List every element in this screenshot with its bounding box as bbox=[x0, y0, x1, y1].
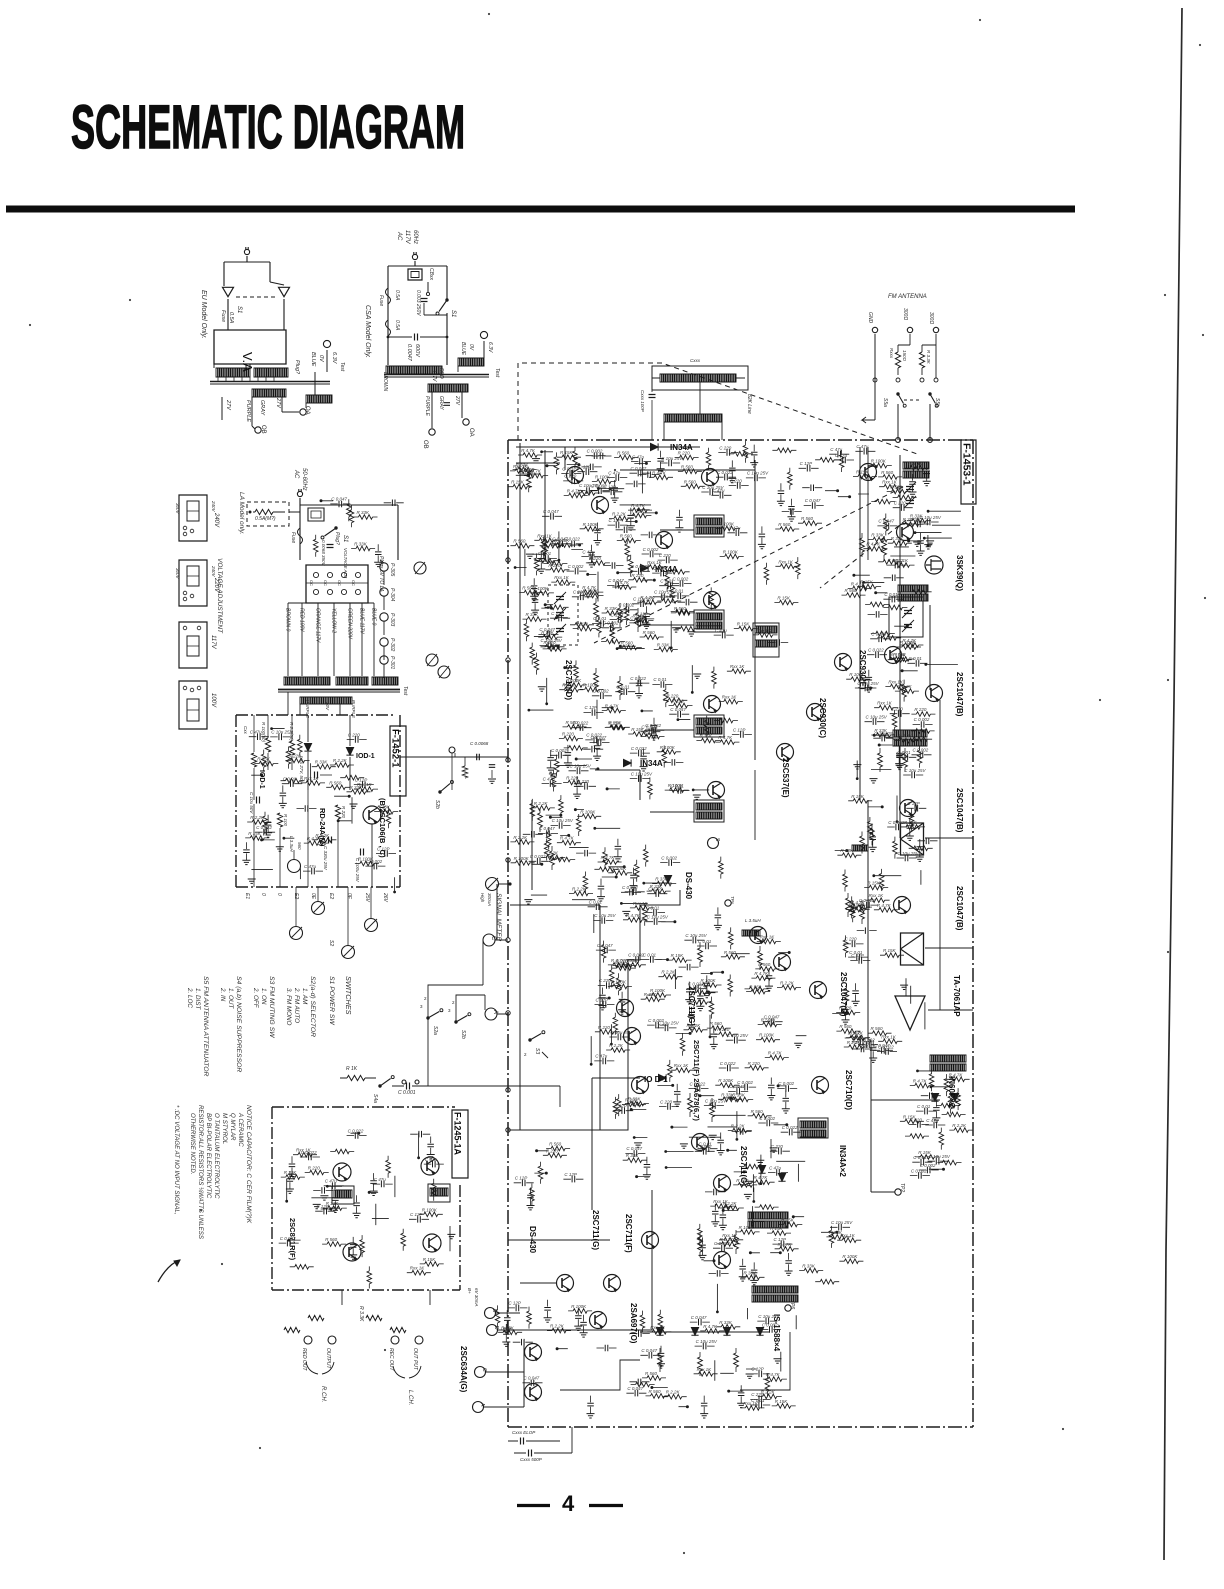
svg-text:R 15K: R 15K bbox=[851, 794, 865, 799]
svg-text:BROWN: BROWN bbox=[382, 372, 388, 392]
svg-text:R 15K: R 15K bbox=[248, 831, 262, 836]
svg-text:C 47u: C 47u bbox=[632, 454, 645, 459]
svg-text:R 560: R 560 bbox=[871, 1026, 884, 1031]
svg-text:High: High bbox=[480, 893, 485, 903]
svg-text:R 15K: R 15K bbox=[511, 480, 525, 485]
svg-text:R 33K: R 33K bbox=[650, 884, 664, 889]
svg-text:C 10u 25V: C 10u 25V bbox=[758, 1314, 780, 1319]
svg-text:C 0.047: C 0.047 bbox=[805, 498, 821, 503]
svg-text:C 0.022: C 0.022 bbox=[301, 1150, 317, 1155]
svg-text:Plugs 6V TO LA: Plugs 6V TO LA bbox=[378, 556, 384, 592]
svg-text:C 0.022: C 0.022 bbox=[690, 1081, 706, 1086]
svg-text:R 560: R 560 bbox=[684, 479, 697, 484]
svg-text:0: 0 bbox=[276, 893, 282, 896]
svg-text:C 0.01: C 0.01 bbox=[909, 656, 923, 661]
svg-text:R 33K: R 33K bbox=[732, 1092, 746, 1097]
svg-text:R 220: R 220 bbox=[748, 1061, 761, 1066]
svg-text:C 0.022: C 0.022 bbox=[586, 733, 602, 738]
svg-text:C 10u 25V: C 10u 25V bbox=[661, 456, 683, 461]
svg-text:R 4.7K: R 4.7K bbox=[631, 503, 646, 508]
svg-text:R 100: R 100 bbox=[283, 814, 288, 827]
svg-text:R 15K: R 15K bbox=[867, 881, 881, 886]
svg-text:C 47u: C 47u bbox=[304, 864, 317, 869]
svg-text:S2(a-d) SELECTOR: S2(a-d) SELECTOR bbox=[309, 976, 316, 1037]
svg-text:R 33K: R 33K bbox=[626, 1153, 640, 1158]
svg-text:S2b: S2b bbox=[434, 800, 440, 809]
svg-text:R 33K: R 33K bbox=[657, 642, 671, 647]
svg-text:GRAY: GRAY bbox=[438, 396, 444, 410]
svg-text:C 10u 25V: C 10u 25V bbox=[685, 933, 707, 938]
svg-text:0V: 0V bbox=[318, 355, 324, 363]
svg-text:TPx: TPx bbox=[730, 896, 735, 905]
svg-text:0.5A: 0.5A bbox=[394, 290, 400, 301]
svg-text:R 100K: R 100K bbox=[842, 1254, 858, 1259]
svg-text:Cxxx: Cxxx bbox=[690, 358, 701, 363]
svg-text:VOLTAGE ADJ: VOLTAGE ADJ bbox=[343, 548, 348, 579]
svg-text:DS-430: DS-430 bbox=[684, 872, 693, 900]
svg-text:C 220: C 220 bbox=[751, 1392, 764, 1397]
svg-text:S2: S2 bbox=[328, 940, 334, 946]
svg-text:R 100K: R 100K bbox=[554, 538, 570, 543]
svg-text:R 33K: R 33K bbox=[721, 1092, 735, 1097]
svg-text:R 560: R 560 bbox=[562, 683, 575, 688]
svg-text:R 100K: R 100K bbox=[660, 745, 676, 750]
svg-text:C 0.01: C 0.01 bbox=[643, 952, 657, 957]
svg-text:C 0.047: C 0.047 bbox=[878, 519, 894, 524]
svg-text:VOLTAGE ADJUSTMENT: VOLTAGE ADJUSTMENT bbox=[216, 558, 223, 634]
svg-text:C 0.01: C 0.01 bbox=[538, 551, 552, 556]
svg-text:C 0.002: C 0.002 bbox=[759, 1116, 775, 1121]
svg-text:AC: AC bbox=[396, 231, 402, 241]
svg-text:R 2.2K: R 2.2K bbox=[644, 730, 659, 735]
svg-text:C 10u 25V: C 10u 25V bbox=[920, 515, 942, 520]
svg-text:Rxx 1K: Rxx 1K bbox=[537, 533, 553, 538]
svg-text:R 560: R 560 bbox=[758, 962, 771, 967]
svg-text:C 0.047: C 0.047 bbox=[539, 826, 555, 831]
svg-text:P-303: P-303 bbox=[389, 613, 395, 627]
svg-text:C 47u: C 47u bbox=[425, 1157, 438, 1162]
svg-text:Rxx 1K: Rxx 1K bbox=[554, 575, 570, 580]
svg-text:Cxxx ELOP: Cxxx ELOP bbox=[512, 1430, 535, 1435]
svg-text:C 47u: C 47u bbox=[835, 453, 848, 458]
svg-text:C 0.01: C 0.01 bbox=[670, 589, 684, 594]
svg-text:O TANTALUM ELECTROLYTIC: O TANTALUM ELECTROLYTIC bbox=[213, 1113, 220, 1199]
svg-text:117V: 117V bbox=[431, 370, 437, 382]
svg-text:BLUE: BLUE bbox=[460, 342, 466, 356]
svg-text:R 33K: R 33K bbox=[526, 612, 540, 617]
svg-text:R 100K: R 100K bbox=[650, 988, 666, 993]
svg-text:2: 2 bbox=[524, 1052, 527, 1057]
svg-text:REC OUT: REC OUT bbox=[388, 1348, 394, 1371]
svg-text:C 10u 25V: C 10u 25V bbox=[857, 681, 879, 686]
svg-text:R 560: R 560 bbox=[643, 630, 656, 635]
svg-text:117V: 117V bbox=[210, 635, 216, 650]
svg-text:R 2.2K: R 2.2K bbox=[666, 1390, 681, 1395]
svg-text:Test: Test bbox=[494, 368, 500, 378]
svg-text:R 100K: R 100K bbox=[723, 549, 739, 554]
svg-text:R 100K: R 100K bbox=[422, 1207, 438, 1212]
svg-text:R 220: R 220 bbox=[839, 1006, 852, 1011]
svg-text:R 3.3K: R 3.3K bbox=[358, 1306, 364, 1322]
svg-text:C 12P: C 12P bbox=[611, 612, 624, 617]
svg-text:C 10u 25V: C 10u 25V bbox=[702, 485, 724, 490]
svg-text:FM ANTENNA: FM ANTENNA bbox=[888, 294, 927, 300]
svg-text:R 220: R 220 bbox=[341, 806, 346, 819]
svg-text:P-304: P-304 bbox=[389, 588, 395, 602]
svg-text:IN34A×2: IN34A×2 bbox=[838, 1145, 847, 1177]
svg-text:R 4.7K: R 4.7K bbox=[913, 1079, 928, 1084]
svg-text:R 4.7K: R 4.7K bbox=[694, 986, 709, 991]
svg-text:R 4.7K: R 4.7K bbox=[718, 735, 733, 740]
svg-text:P-301: P-301 bbox=[389, 656, 395, 670]
svg-text:3: 3 bbox=[448, 1008, 451, 1013]
svg-text:C 10u 25V: C 10u 25V bbox=[647, 915, 669, 920]
svg-text:R 100K: R 100K bbox=[583, 522, 599, 527]
svg-text:OB: OB bbox=[422, 440, 428, 449]
svg-text:C 0.022: C 0.022 bbox=[717, 470, 733, 475]
svg-text:0.0047: 0.0047 bbox=[406, 344, 412, 362]
svg-text:C 0.002: C 0.002 bbox=[366, 859, 382, 864]
svg-text:R 220: R 220 bbox=[914, 707, 927, 712]
svg-text:R 33K: R 33K bbox=[891, 536, 905, 541]
svg-text:R 100K: R 100K bbox=[583, 682, 599, 687]
svg-text:R 560: R 560 bbox=[839, 1024, 852, 1029]
svg-text:R 4.7K: R 4.7K bbox=[626, 913, 641, 918]
svg-text:C 0.047: C 0.047 bbox=[670, 707, 686, 712]
svg-text:OC: OC bbox=[323, 580, 328, 586]
svg-text:C 0.047: C 0.047 bbox=[641, 1348, 657, 1353]
svg-text:27V: 27V bbox=[454, 395, 460, 406]
svg-text:4: 4 bbox=[562, 1491, 575, 1516]
svg-text:C 0.002: C 0.002 bbox=[914, 717, 930, 722]
svg-text:C 0.047: C 0.047 bbox=[543, 509, 559, 514]
svg-text:R 33K: R 33K bbox=[605, 606, 619, 611]
svg-text:R 2.2K: R 2.2K bbox=[572, 886, 587, 891]
svg-text:M STYROL: M STYROL bbox=[221, 1113, 228, 1144]
svg-text:C 0.047: C 0.047 bbox=[626, 1146, 642, 1151]
svg-text:C 0.047: C 0.047 bbox=[691, 1315, 707, 1320]
svg-text:2SC711(F): 2SC711(F) bbox=[624, 1214, 633, 1253]
svg-text:S5a: S5a bbox=[882, 398, 888, 407]
svg-text:RESISTOR:ALL RESISTORS ¼WATTS: RESISTOR:ALL RESISTORS ¼WATTS UNLESS bbox=[197, 1105, 204, 1239]
svg-text:560: 560 bbox=[297, 842, 302, 850]
svg-text:C 220: C 220 bbox=[771, 1144, 784, 1149]
svg-text:C 0.002: C 0.002 bbox=[568, 564, 584, 569]
svg-text:OC: OC bbox=[337, 580, 342, 586]
svg-text:Rxx 1K: Rxx 1K bbox=[660, 594, 676, 599]
svg-text:2. OFF: 2. OFF bbox=[252, 987, 259, 1009]
svg-text:R 33K: R 33K bbox=[874, 728, 888, 733]
svg-text:R 560: R 560 bbox=[881, 470, 894, 475]
svg-text:L.CH.: L.CH. bbox=[407, 1390, 413, 1405]
svg-text:Plug?: Plug? bbox=[294, 360, 300, 375]
svg-text:0.5A: 0.5A bbox=[228, 312, 234, 324]
svg-text:R 4.7K: R 4.7K bbox=[768, 1051, 783, 1056]
svg-text:C 0.022: C 0.022 bbox=[888, 558, 904, 563]
svg-text:R 560: R 560 bbox=[801, 516, 814, 521]
svg-text:R 100K: R 100K bbox=[718, 1078, 734, 1083]
svg-text:C 10u 25V: C 10u 25V bbox=[727, 1033, 749, 1038]
svg-text:C 47u: C 47u bbox=[250, 730, 263, 735]
svg-text:2SC1047(B): 2SC1047(B) bbox=[955, 788, 964, 833]
svg-text:C 220: C 220 bbox=[348, 732, 361, 737]
svg-text:C 0.01: C 0.01 bbox=[699, 1142, 713, 1147]
svg-text:2. LOC: 2. LOC bbox=[186, 987, 193, 1008]
svg-text:30V: 30V bbox=[325, 702, 330, 711]
svg-text:C: C bbox=[490, 936, 496, 941]
svg-text:C 12P: C 12P bbox=[410, 1212, 423, 1217]
svg-text:82K Line: 82K Line bbox=[746, 394, 752, 414]
svg-text:1. DIST: 1. DIST bbox=[194, 988, 201, 1010]
svg-text:C 47u: C 47u bbox=[715, 628, 728, 633]
svg-text:C 0.002: C 0.002 bbox=[913, 748, 929, 753]
svg-text:R 4.7K: R 4.7K bbox=[527, 469, 542, 474]
svg-text:C 220: C 220 bbox=[894, 501, 907, 506]
svg-text:DS-430: DS-430 bbox=[528, 1226, 537, 1254]
svg-text:R 560: R 560 bbox=[329, 780, 342, 785]
svg-text:B: B bbox=[491, 1309, 497, 1313]
svg-text:1. AM: 1. AM bbox=[301, 988, 308, 1005]
svg-text:L 3.3uH: L 3.3uH bbox=[289, 836, 294, 852]
svg-text:R 560: R 560 bbox=[549, 1142, 562, 1147]
svg-text:R 4.7K: R 4.7K bbox=[601, 855, 616, 860]
svg-text:R 15K: R 15K bbox=[699, 734, 713, 739]
svg-text:C 0.022: C 0.022 bbox=[562, 466, 578, 471]
svg-text:C 0.01: C 0.01 bbox=[897, 750, 911, 755]
svg-text:SCHEMATIC DIAGRAM: SCHEMATIC DIAGRAM bbox=[71, 93, 465, 161]
svg-text:C 47u: C 47u bbox=[543, 776, 556, 781]
svg-text:R 100K: R 100K bbox=[571, 1304, 587, 1309]
svg-text:300V: 300V bbox=[175, 503, 180, 515]
svg-text:Test: Test bbox=[402, 686, 408, 696]
svg-text:C 47u: C 47u bbox=[325, 1179, 338, 1184]
svg-text:C 0.001: C 0.001 bbox=[398, 1090, 416, 1096]
svg-text:C 0.002: C 0.002 bbox=[593, 689, 609, 694]
svg-text:Rxx 1K: Rxx 1K bbox=[722, 695, 738, 700]
svg-text:R 15K: R 15K bbox=[777, 596, 791, 601]
svg-text:2. FM AUTO: 2. FM AUTO bbox=[293, 987, 300, 1023]
svg-text:ORANGE 117V: ORANGE 117V bbox=[315, 608, 321, 643]
svg-text:R 33K: R 33K bbox=[326, 1201, 340, 1206]
svg-text:C 47u: C 47u bbox=[728, 526, 741, 531]
svg-text:R 220: R 220 bbox=[672, 698, 685, 703]
svg-text:E2: E2 bbox=[328, 893, 334, 899]
svg-text:GND: GND bbox=[867, 312, 873, 324]
svg-text:OUTPUT: OUTPUT bbox=[325, 1348, 331, 1370]
svg-text:R 4.7K: R 4.7K bbox=[560, 836, 575, 841]
svg-text:2SC537(E): 2SC537(E) bbox=[781, 758, 790, 798]
svg-text:R 220: R 220 bbox=[589, 556, 602, 561]
svg-text:C 0.01: C 0.01 bbox=[646, 905, 660, 910]
svg-text:R 33K: R 33K bbox=[910, 514, 924, 519]
svg-text:R 560: R 560 bbox=[845, 588, 858, 593]
svg-text:C 0.01: C 0.01 bbox=[653, 677, 667, 682]
svg-text:GRAY: GRAY bbox=[259, 400, 265, 416]
svg-text:C 47u: C 47u bbox=[374, 1177, 387, 1182]
svg-text:R 220: R 220 bbox=[289, 754, 302, 759]
svg-text:R 4.7K: R 4.7K bbox=[877, 903, 892, 908]
svg-text:S2a: S2a bbox=[432, 1026, 438, 1035]
svg-text:V.A: V.A bbox=[240, 352, 255, 372]
svg-text:C 10u 25V: C 10u 25V bbox=[541, 638, 563, 643]
svg-text:C 220: C 220 bbox=[845, 937, 858, 942]
svg-text:6.3V: 6.3V bbox=[487, 342, 493, 353]
svg-text:C 0.01: C 0.01 bbox=[751, 1398, 765, 1403]
svg-text:3. FM MONO: 3. FM MONO bbox=[285, 988, 292, 1026]
svg-text:6V 30mA: 6V 30mA bbox=[474, 1288, 479, 1307]
svg-text:R 560: R 560 bbox=[645, 1371, 658, 1376]
svg-text:BROWN 0: BROWN 0 bbox=[285, 608, 291, 632]
svg-text:R 2.2K: R 2.2K bbox=[544, 850, 559, 855]
svg-text:R 2.2K: R 2.2K bbox=[723, 1201, 738, 1206]
svg-text:1. ON: 1. ON bbox=[260, 988, 267, 1005]
svg-text:R 100K: R 100K bbox=[611, 979, 627, 984]
svg-text:Fuse: Fuse bbox=[290, 532, 296, 543]
svg-text:R 2.2K: R 2.2K bbox=[609, 1043, 624, 1048]
svg-text:6.3V: 6.3V bbox=[331, 352, 337, 365]
svg-text:C 0.01: C 0.01 bbox=[671, 783, 685, 788]
svg-text:E1: E1 bbox=[244, 893, 250, 899]
svg-text:R 2.2K: R 2.2K bbox=[731, 1124, 746, 1129]
svg-text:C 10u 25V: C 10u 25V bbox=[705, 1098, 727, 1103]
svg-text:CBxx: CBxx bbox=[428, 268, 434, 280]
svg-text:C 0.002: C 0.002 bbox=[618, 603, 634, 608]
svg-text:C 12P: C 12P bbox=[564, 1172, 577, 1177]
svg-text:R 33K: R 33K bbox=[354, 541, 368, 546]
svg-text:Cxxx 100P: Cxxx 100P bbox=[640, 390, 645, 412]
svg-text:R 560: R 560 bbox=[674, 606, 687, 611]
svg-text:C 12P: C 12P bbox=[585, 705, 598, 710]
svg-text:R 4.7K: R 4.7K bbox=[605, 704, 620, 709]
svg-text:C 12P: C 12P bbox=[614, 1104, 627, 1109]
svg-text:R 15K: R 15K bbox=[903, 1114, 917, 1119]
svg-text:2SA697(O): 2SA697(O) bbox=[629, 1303, 638, 1344]
svg-text:IN60P×2: IN60P×2 bbox=[947, 1076, 956, 1108]
svg-text:R 560: R 560 bbox=[751, 1109, 764, 1114]
svg-text:R 4.7K: R 4.7K bbox=[778, 1242, 793, 1247]
svg-text:IN34A: IN34A bbox=[640, 759, 663, 768]
svg-text:C 0.022: C 0.022 bbox=[688, 981, 704, 986]
svg-text:Rxx 1K: Rxx 1K bbox=[730, 664, 746, 669]
svg-text:Test: Test bbox=[339, 362, 345, 372]
svg-text:R 560: R 560 bbox=[620, 534, 633, 539]
svg-text:Rxx 1K: Rxx 1K bbox=[650, 1325, 666, 1330]
svg-text:300Ω: 300Ω bbox=[928, 312, 934, 324]
svg-text:EU Model Only.: EU Model Only. bbox=[200, 290, 207, 339]
svg-text:R 2.2K: R 2.2K bbox=[630, 509, 645, 514]
svg-text:R 15K: R 15K bbox=[883, 948, 897, 953]
svg-text:C 10u 25V: C 10u 25V bbox=[271, 730, 293, 735]
svg-text:Rxx 1K: Rxx 1K bbox=[881, 1034, 897, 1039]
svg-text:C 0.047: C 0.047 bbox=[913, 1155, 929, 1160]
svg-text:E2: E2 bbox=[293, 893, 299, 899]
svg-text:C 0.01: C 0.01 bbox=[917, 1104, 931, 1109]
svg-text:R 560: R 560 bbox=[522, 586, 535, 591]
svg-text:R 33K: R 33K bbox=[744, 1270, 758, 1275]
svg-text:C 10u 25V: C 10u 25V bbox=[579, 483, 601, 488]
svg-text:R 33K: R 33K bbox=[829, 1230, 843, 1235]
svg-text:C 0.002: C 0.002 bbox=[603, 621, 619, 626]
svg-text:C 12P: C 12P bbox=[774, 1237, 787, 1242]
svg-text:C 0.002: C 0.002 bbox=[920, 1163, 936, 1168]
svg-text:R 15K: R 15K bbox=[423, 1257, 437, 1262]
svg-text:C 10u 25V: C 10u 25V bbox=[610, 1030, 632, 1035]
svg-text:R 15K: R 15K bbox=[737, 622, 751, 627]
svg-text:R 100K: R 100K bbox=[900, 640, 916, 645]
svg-text:LA Model only.: LA Model only. bbox=[238, 492, 245, 534]
svg-text:2SC711(G): 2SC711(G) bbox=[687, 986, 696, 1026]
svg-text:R 33K: R 33K bbox=[655, 877, 669, 882]
svg-text:R 100K: R 100K bbox=[849, 672, 865, 677]
svg-text:R 220: R 220 bbox=[631, 573, 644, 578]
svg-text:C 0.022: C 0.022 bbox=[720, 1061, 736, 1066]
svg-text:A: A bbox=[479, 1403, 485, 1407]
svg-text:Rxx 1K: Rxx 1K bbox=[877, 701, 893, 706]
svg-text:S4a: S4a bbox=[372, 1094, 378, 1103]
svg-text:C 330u 25V: C 330u 25V bbox=[323, 846, 328, 871]
svg-text:BLUE 117V: BLUE 117V bbox=[359, 608, 365, 634]
svg-text:R 2.2K: R 2.2K bbox=[720, 1237, 735, 1242]
svg-text:R 4.7K: R 4.7K bbox=[754, 1175, 769, 1180]
svg-text:C 0.002: C 0.002 bbox=[661, 855, 677, 860]
svg-text:A CERAMIC: A CERAMIC bbox=[237, 1112, 244, 1147]
svg-text:C 0.047: C 0.047 bbox=[729, 1084, 745, 1089]
svg-text:C 0.002: C 0.002 bbox=[643, 547, 659, 552]
svg-text:C 0.01: C 0.01 bbox=[698, 939, 712, 944]
svg-text:C 0.047: C 0.047 bbox=[631, 564, 647, 569]
svg-text:R 100K: R 100K bbox=[595, 474, 611, 479]
svg-text:0.5A(M?): 0.5A(M?) bbox=[255, 516, 276, 522]
svg-text:C 0.022: C 0.022 bbox=[868, 648, 884, 653]
svg-text:R 220: R 220 bbox=[625, 1097, 638, 1102]
svg-text:C 10u 25V: C 10u 25V bbox=[866, 715, 888, 720]
svg-text:C 0.047: C 0.047 bbox=[524, 1376, 540, 1381]
svg-text:C 12P: C 12P bbox=[733, 727, 746, 732]
svg-text:C 10u 25V: C 10u 25V bbox=[570, 764, 592, 769]
svg-text:25V: 25V bbox=[364, 892, 370, 903]
svg-text:S2b: S2b bbox=[460, 1030, 466, 1039]
svg-text:27V: 27V bbox=[275, 397, 281, 409]
svg-text:R 33K: R 33K bbox=[257, 757, 271, 762]
svg-text:R 100K: R 100K bbox=[759, 1033, 775, 1038]
svg-text:OTHERWISE NOTED.: OTHERWISE NOTED. bbox=[189, 1113, 196, 1175]
svg-text:C 47u: C 47u bbox=[582, 549, 595, 554]
svg-text:3: 3 bbox=[420, 1004, 423, 1009]
svg-text:C 220: C 220 bbox=[573, 590, 586, 595]
svg-text:2SC930(C): 2SC930(C) bbox=[818, 698, 827, 738]
svg-text:R 100K: R 100K bbox=[514, 856, 530, 861]
svg-text:IO D-1: IO D-1 bbox=[644, 1075, 668, 1084]
svg-text:IOD-1: IOD-1 bbox=[258, 770, 265, 789]
svg-text:R.CH.: R.CH. bbox=[320, 1386, 326, 1402]
svg-text:R 2.2K: R 2.2K bbox=[898, 684, 913, 689]
svg-text:C 12P: C 12P bbox=[603, 485, 616, 490]
svg-text:BLUE: BLUE bbox=[310, 352, 316, 367]
svg-text:C 0.002: C 0.002 bbox=[587, 449, 603, 454]
svg-text:0.003 250V: 0.003 250V bbox=[415, 290, 421, 316]
svg-text:R 220: R 220 bbox=[548, 563, 561, 568]
svg-text:R 2.2K: R 2.2K bbox=[952, 1123, 967, 1128]
svg-text:OC: OC bbox=[309, 580, 314, 586]
svg-text:R 4.7K: R 4.7K bbox=[866, 542, 881, 547]
svg-text:R 220: R 220 bbox=[678, 451, 691, 456]
svg-text:YELLOW 2: YELLOW 2 bbox=[331, 608, 337, 633]
svg-text:C 0.047: C 0.047 bbox=[764, 1015, 780, 1020]
svg-text:D: D bbox=[493, 1326, 499, 1330]
svg-text:2SC1047(B): 2SC1047(B) bbox=[955, 886, 964, 931]
svg-text:0V: 0V bbox=[468, 344, 474, 351]
svg-text:R 560: R 560 bbox=[724, 950, 737, 955]
